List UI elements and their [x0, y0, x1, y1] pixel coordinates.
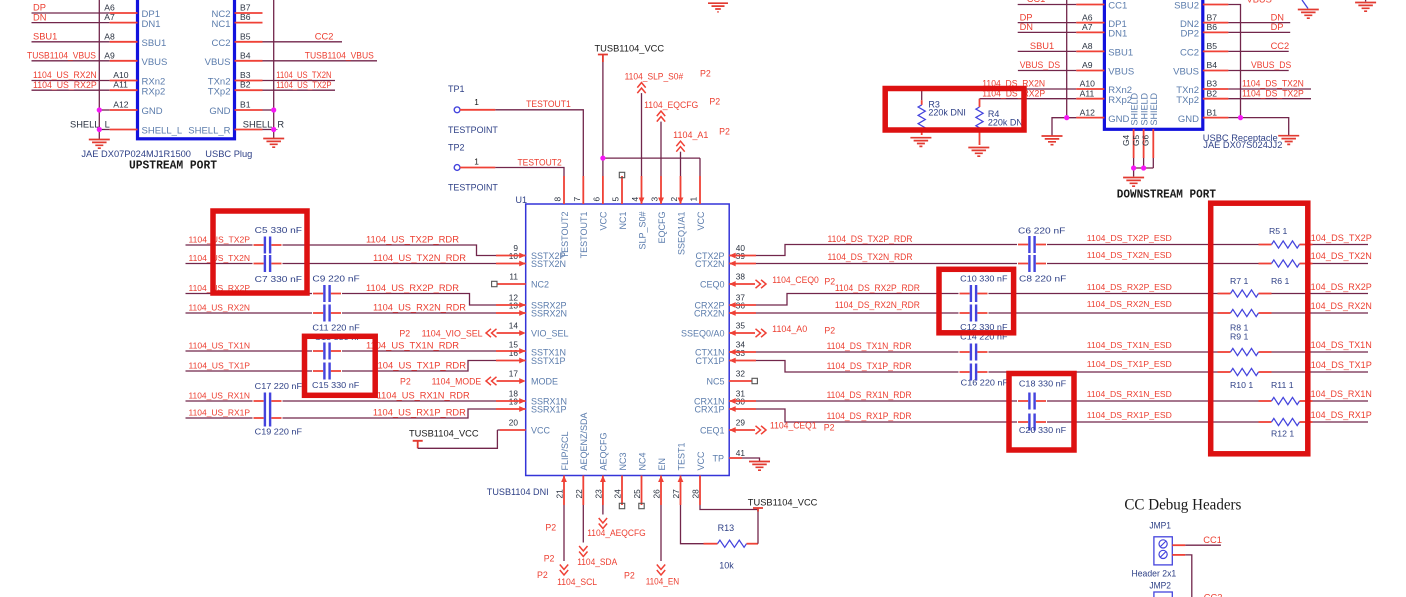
svg-text:1104_DS_RX2P_RDR: 1104_DS_RX2P_RDR	[835, 283, 920, 293]
upstream SHELL_L net label	[70, 119, 110, 129]
wire net 1104_US_RX2P with capacitor C9	[186, 283, 526, 308]
svg-text:EQCFG: EQCFG	[657, 212, 667, 244]
svg-text:1104_DS_RX2N: 1104_DS_RX2N	[1306, 301, 1372, 311]
svg-text:SSRX1P: SSRX1P	[531, 404, 567, 414]
svg-text:G4: G4	[1121, 135, 1131, 146]
svg-text:C6 220 nF: C6 220 nF	[1018, 226, 1065, 236]
upstream pin SHELL_R (SHELL_R) wire	[188, 126, 273, 137]
svg-text:SBU2: SBU2	[1174, 1, 1199, 12]
svg-text:1104_DS_TX1N_ESD: 1104_DS_TX1N_ESD	[1087, 340, 1172, 350]
svg-text:1104_US_TX1N: 1104_US_TX1N	[189, 341, 251, 351]
svg-text:SBU1: SBU1	[33, 32, 57, 42]
downstream left bus wire	[1066, 0, 1068, 118]
svg-text:C11 220 nF: C11 220 nF	[312, 323, 359, 333]
svg-text:G5: G5	[1131, 135, 1141, 146]
svg-text:CTX2N: CTX2N	[695, 259, 725, 269]
svg-text:CC Debug Headers: CC Debug Headers	[1124, 497, 1241, 514]
downstream pin B4 (VBUS) wire	[1173, 60, 1291, 78]
IC pin 23 (AEQCFG) bottom stub	[593, 432, 608, 505]
IC pin 29 (CEQ1) right name	[700, 418, 745, 436]
svg-text:1104_US_RX1N: 1104_US_RX1N	[189, 391, 251, 401]
svg-text:A9: A9	[104, 50, 115, 60]
svg-text:21: 21	[555, 489, 565, 499]
shield pin stubs	[1121, 92, 1159, 158]
svg-text:1104_DS_TX2N_ESD: 1104_DS_TX2N_ESD	[1087, 250, 1172, 260]
svg-text:3: 3	[650, 197, 660, 202]
svg-text:1104_DS_TX1P_RDR: 1104_DS_TX1P_RDR	[827, 361, 912, 371]
svg-text:SSTX2N: SSTX2N	[531, 259, 566, 269]
svg-text:P2: P2	[399, 328, 410, 338]
svg-text:R13: R13	[718, 523, 735, 533]
svg-text:JAE DX07S024JJ2: JAE DX07S024JJ2	[1203, 140, 1282, 150]
IC pin 11 (NC2) left name	[509, 272, 549, 290]
svg-text:17: 17	[509, 369, 519, 379]
svg-text:UPSTREAM PORT: UPSTREAM PORT	[129, 159, 217, 173]
svg-text:TUSB1104 DNI: TUSB1104 DNI	[487, 487, 549, 497]
upstream pin A10 (RXn2) wire	[32, 70, 166, 88]
upstream pin A7 (DN1) wire	[32, 12, 161, 30]
ground at R4	[968, 148, 989, 157]
offpage 1104_SDA from pin 22	[544, 505, 618, 567]
IC pin 6 (VCC) top stub	[592, 176, 609, 231]
svg-text:7: 7	[572, 197, 582, 202]
clipped net label top CC1 area	[1027, 0, 1046, 4]
svg-text:VBUS: VBUS	[1173, 67, 1199, 78]
junction B1	[271, 107, 276, 112]
upstream connector part labels	[81, 149, 252, 159]
svg-text:TXp2: TXp2	[208, 86, 231, 97]
testpoint TP2	[448, 142, 498, 192]
wire net 1104_US_RX1N with capacitor C17	[186, 391, 526, 410]
ground top right 2	[1355, 0, 1376, 11]
svg-text:CC1: CC1	[1203, 535, 1222, 545]
svg-text:C20 330 nF: C20 330 nF	[1019, 425, 1066, 435]
highlight box around R5-R12	[1211, 203, 1308, 454]
svg-text:NC1: NC1	[618, 212, 628, 230]
svg-text:DOWNSTREAM PORT: DOWNSTREAM PORT	[1117, 188, 1216, 202]
junction SHELL_L	[97, 127, 102, 132]
IC pin 20 (VCC) left name	[509, 418, 551, 436]
upstream left shield bus wire	[98, 0, 100, 139]
clipped net label top right	[1247, 0, 1272, 5]
wire net 1104_DS_TX1P chain with capacitor C16 and resistor R10	[729, 358, 1372, 381]
IC pin 37 (CRX2P) right name	[694, 293, 745, 311]
svg-text:VBUS: VBUS	[1247, 0, 1272, 5]
downstream USB-C receptacle connector box	[1104, 0, 1202, 129]
svg-text:B7: B7	[240, 3, 251, 13]
capacitor C16 label	[961, 378, 1008, 388]
capacitor C7 label	[255, 274, 302, 284]
IC pin 10 (SSTX2N) left name	[509, 251, 566, 269]
svg-text:P2: P2	[624, 571, 635, 581]
svg-text:C18 330 nF: C18 330 nF	[1019, 378, 1066, 388]
offpage 1104_SCL from pin 21	[537, 505, 597, 587]
IC pin 32 (NC5) right name	[706, 369, 745, 387]
svg-text:P2: P2	[824, 326, 835, 336]
svg-text:B2: B2	[240, 80, 251, 90]
IC pin 28 (VCC) bottom stub	[691, 451, 706, 505]
svg-text:FLIP/SCL: FLIP/SCL	[560, 431, 570, 470]
downstream pin B2 (TXp2) wire	[1176, 88, 1311, 106]
IC pin 14 (VIO_SEL) left name	[509, 321, 569, 339]
svg-text:1104_DS_RX1P_RDR: 1104_DS_RX1P_RDR	[827, 411, 912, 421]
svg-text:1: 1	[474, 157, 479, 167]
svg-text:P2: P2	[719, 127, 730, 137]
svg-text:A7: A7	[104, 12, 115, 22]
IC pin 36 (CRX2N) right name	[694, 301, 745, 319]
IC pin 24 (NC3) bottom stub	[613, 452, 628, 505]
svg-text:1104_US_TX2P_RDR: 1104_US_TX2P_RDR	[366, 235, 459, 245]
downstream pin A6 (DP1) wire	[1018, 12, 1127, 30]
svg-text:CEQ0: CEQ0	[700, 279, 725, 289]
svg-text:C16 220 nF: C16 220 nF	[961, 378, 1008, 388]
junction downstream B1	[1238, 115, 1243, 120]
capacitor C8 label	[1019, 274, 1066, 284]
capacitor C13 label	[315, 332, 362, 342]
svg-text:1104_US_RX1P: 1104_US_RX1P	[189, 408, 251, 418]
IC pin 1 (VCC) top stub	[689, 176, 706, 231]
svg-text:1104_DS_TX2N: 1104_DS_TX2N	[1242, 79, 1304, 89]
svg-text:32: 32	[736, 369, 746, 379]
svg-text:C5 330 nF: C5 330 nF	[255, 225, 302, 235]
svg-text:GND: GND	[1178, 114, 1199, 125]
svg-text:CC2: CC2	[1271, 41, 1290, 51]
svg-text:B4: B4	[1207, 60, 1218, 70]
svg-text:R6 1: R6 1	[1271, 276, 1290, 286]
upstream USB-C plug connector J? box	[138, 0, 235, 139]
resistor R12 label	[1271, 429, 1294, 439]
svg-text:P2: P2	[400, 376, 411, 386]
svg-text:AEQCFG: AEQCFG	[599, 432, 609, 470]
svg-text:1104_DS_TX1P: 1104_DS_TX1P	[1306, 360, 1372, 370]
svg-text:1104_US_RX2N: 1104_US_RX2N	[189, 303, 251, 313]
junction shield 2	[1141, 165, 1146, 170]
svg-text:B3: B3	[1207, 79, 1218, 89]
svg-text:1: 1	[474, 97, 479, 107]
svg-text:1104_VIO_SEL: 1104_VIO_SEL	[422, 328, 483, 338]
svg-text:TESTOUT1: TESTOUT1	[579, 212, 589, 259]
ground upstream left	[89, 140, 110, 149]
svg-text:20: 20	[509, 418, 519, 428]
svg-text:1104_US_TX2N: 1104_US_TX2N	[276, 70, 331, 80]
upstream right shield bus wire	[273, 0, 275, 138]
downstream pin B1 (GND) wire	[1178, 107, 1241, 125]
svg-text:1104_EQCFG: 1104_EQCFG	[644, 100, 698, 110]
IC pin 40 (CTX2P) right name	[695, 243, 745, 261]
svg-text:23: 23	[593, 489, 603, 499]
wire net 1104_US_TX1P with capacitor C15	[186, 358, 526, 380]
svg-text:CEQ1: CEQ1	[700, 425, 725, 435]
svg-text:B1: B1	[240, 100, 251, 110]
svg-text:5: 5	[611, 197, 621, 202]
svg-text:R9 1: R9 1	[1230, 332, 1249, 342]
svg-text:11: 11	[509, 272, 518, 282]
downstream pin A9 (VBUS) wire	[1018, 60, 1134, 78]
svg-text:CC2: CC2	[1180, 48, 1199, 59]
shield wires to ground	[1134, 158, 1154, 177]
wire net 1104_US_TX1N with capacitor C13	[186, 341, 526, 360]
svg-text:1104_SDA: 1104_SDA	[577, 557, 617, 567]
IC pin 5 no-connect square	[619, 172, 624, 177]
wire TESTOUT2	[495, 157, 564, 176]
capacitor C11 label	[312, 323, 359, 333]
downstream pin A11 (RXp2) wire	[980, 88, 1133, 106]
svg-text:G6: G6	[1141, 135, 1151, 146]
downstream pin A8 (SBU1) wire	[1018, 41, 1133, 59]
svg-text:B6: B6	[240, 12, 251, 22]
svg-text:1104_US_RX2N_RDR: 1104_US_RX2N_RDR	[373, 303, 466, 313]
svg-text:SSTX1P: SSTX1P	[531, 356, 566, 366]
IC pin 12 (SSRX2P) left name	[509, 293, 567, 311]
ground shield	[1123, 178, 1144, 187]
capacitor C19 label	[255, 427, 302, 437]
svg-text:NC4: NC4	[637, 452, 647, 470]
svg-text:220k DNI: 220k DNI	[928, 108, 966, 118]
svg-text:16: 16	[509, 348, 519, 358]
downstream pin A12 (GND) wire	[1052, 107, 1130, 125]
upstream pin A8 (SBU1) wire	[32, 31, 167, 49]
upstream pin A11 (RXp2) wire	[32, 80, 166, 98]
IC pin 21 (FLIP/SCL) bottom stub	[555, 431, 570, 505]
svg-text:1104_US_TX1P: 1104_US_TX1P	[189, 361, 251, 371]
svg-text:R12 1: R12 1	[1271, 429, 1294, 439]
svg-text:22: 22	[574, 489, 584, 499]
svg-text:R10 1: R10 1	[1230, 380, 1253, 390]
downstream pin B5 (CC2) wire	[1180, 41, 1289, 59]
svg-text:RXp2: RXp2	[142, 86, 166, 97]
svg-text:A8: A8	[104, 31, 115, 41]
svg-text:1104_MODE: 1104_MODE	[432, 376, 482, 386]
svg-text:U1: U1	[516, 195, 528, 205]
power symbol TUSB1104_VCC top	[595, 44, 665, 63]
IC pin 25 no-connect square	[639, 503, 644, 508]
svg-text:A11: A11	[113, 80, 128, 90]
svg-text:1104_DS_TX2N: 1104_DS_TX2N	[1306, 251, 1372, 261]
svg-text:1104_US_TX2P: 1104_US_TX2P	[276, 80, 331, 90]
offpage 1104_AEQCFG from pin 23	[545, 505, 645, 538]
svg-text:220k DNI: 220k DNI	[988, 118, 1026, 128]
wire net 1104_DS_TX1N chain with capacitor C14 and resistor R9	[729, 340, 1372, 361]
svg-text:NC3: NC3	[618, 452, 628, 470]
IC pin 25 (NC4) bottom stub	[632, 452, 647, 505]
svg-text:B1: B1	[1207, 107, 1218, 117]
svg-text:DN: DN	[33, 12, 46, 22]
svg-text:B3: B3	[240, 70, 251, 80]
UPSTREAM PORT title	[129, 159, 217, 173]
svg-text:GND: GND	[209, 106, 230, 117]
svg-text:SHIELD: SHIELD	[1149, 92, 1159, 125]
downstream pin B3 (TXn2) wire	[1176, 79, 1311, 97]
svg-text:GND: GND	[1108, 114, 1129, 125]
svg-text:CRX2N: CRX2N	[694, 308, 725, 318]
svg-text:SSEQ0/A0: SSEQ0/A0	[681, 328, 725, 338]
svg-text:VBUS: VBUS	[1108, 67, 1134, 78]
svg-text:1104_AEQCFG: 1104_AEQCFG	[587, 528, 646, 538]
svg-text:29: 29	[736, 418, 746, 428]
svg-text:A12: A12	[113, 100, 129, 110]
upstream pin B4 (VBUS) wire	[205, 50, 377, 68]
wire net 1104_DS_TX2P chain with capacitor C6 and resistor R5	[729, 233, 1372, 258]
svg-text:SSRX2N: SSRX2N	[531, 308, 567, 318]
resistor R10 R11 labels	[1230, 380, 1294, 390]
capacitor C12 label	[960, 322, 1007, 332]
wire net 1104_DS_RX1N chain with capacitor C18 and resistor R11	[729, 389, 1372, 410]
IC pin 38 (CEQ0) right name	[700, 272, 745, 290]
ground upstream right	[263, 139, 284, 148]
highlight box around C10 C12	[939, 269, 1014, 333]
offpage 1104_SLP_S0# to pin 4	[625, 69, 711, 177]
svg-text:33: 33	[736, 348, 746, 358]
junction SHELL_R	[271, 127, 276, 132]
svg-text:R11 1: R11 1	[1271, 380, 1294, 390]
testpoint TP1	[448, 84, 498, 135]
IC pin 41 TP wire to ground	[729, 458, 759, 461]
IC pin 24 no-connect square	[619, 503, 624, 508]
svg-text:A8: A8	[1082, 41, 1093, 51]
resistor R5 label	[1269, 226, 1288, 236]
svg-text:1104_DS_TX1P_ESD: 1104_DS_TX1P_ESD	[1087, 359, 1172, 369]
svg-text:C7 330 nF: C7 330 nF	[255, 274, 302, 284]
svg-text:CC2: CC2	[1204, 593, 1223, 597]
svg-text:SHIELD: SHIELD	[1129, 92, 1139, 125]
IC pin 35 (SSEQ0/A0) right name	[681, 321, 745, 339]
IC pin 39 (CTX2N) right name	[695, 251, 745, 269]
svg-text:GND: GND	[142, 106, 163, 117]
IC pin 2 (SSEQ1/A1) top stub	[669, 176, 686, 255]
wire TUSB1104_VCC to pin6/pin1	[603, 62, 700, 176]
svg-text:A7: A7	[1082, 22, 1093, 32]
ground downstream B1	[1278, 136, 1299, 145]
svg-text:1104_US_TX2N: 1104_US_TX2N	[189, 253, 251, 263]
upstream pin B7 (NC2) wire	[211, 3, 262, 21]
svg-text:10k: 10k	[719, 561, 734, 571]
svg-text:A10: A10	[1080, 79, 1096, 89]
svg-text:TUSB1104_VBUS: TUSB1104_VBUS	[27, 51, 96, 61]
svg-text:14: 14	[509, 321, 519, 331]
svg-text:VCC: VCC	[696, 211, 706, 231]
junction A12	[97, 107, 102, 112]
svg-text:CC2: CC2	[211, 38, 230, 49]
svg-text:R5 1: R5 1	[1269, 226, 1288, 236]
svg-text:TESTOUT1: TESTOUT1	[526, 99, 571, 109]
IC pin 15 (SSTX1N) left name	[509, 340, 566, 358]
downstream pin B6 (DP2) wire	[1181, 22, 1291, 39]
svg-text:SBU1: SBU1	[1030, 41, 1054, 51]
svg-text:SSEQ1/A1: SSEQ1/A1	[676, 212, 686, 256]
power symbol TUSB1104_VCC at pin 28	[748, 498, 818, 512]
svg-text:SBU1: SBU1	[142, 38, 167, 49]
svg-text:EN: EN	[657, 458, 667, 471]
svg-text:DP2: DP2	[1181, 29, 1199, 40]
svg-text:C15 330 nF: C15 330 nF	[312, 380, 359, 390]
CC2 label partial	[1204, 593, 1223, 597]
svg-text:P2: P2	[824, 423, 835, 433]
resistor R3 220k DNI	[918, 89, 966, 135]
IC pin 9 (SSTX2P) left name	[513, 243, 565, 261]
svg-text:B5: B5	[240, 31, 251, 41]
downstream pin B7 (DN2) wire	[1180, 12, 1290, 30]
capacitor C9 label	[312, 274, 359, 284]
svg-text:28: 28	[691, 489, 701, 499]
wire TESTOUT1	[495, 99, 583, 176]
capacitor C6 label	[1018, 226, 1065, 236]
wire VCC to pin 20	[418, 430, 526, 448]
junction VCC pin6	[600, 156, 605, 161]
svg-text:CC2: CC2	[315, 32, 334, 42]
svg-text:TUSB1104_VCC: TUSB1104_VCC	[595, 44, 665, 54]
svg-text:C9 220 nF: C9 220 nF	[312, 274, 359, 284]
svg-text:VCC: VCC	[531, 425, 551, 435]
svg-text:TP: TP	[713, 454, 725, 464]
capacitor C18 label	[1019, 378, 1066, 388]
offpage 1104_A0 at pin 35	[729, 324, 835, 337]
svg-text:TEST1: TEST1	[676, 442, 686, 470]
svg-text:25: 25	[632, 489, 642, 499]
svg-text:P2: P2	[700, 69, 711, 79]
svg-text:TESTOUT2: TESTOUT2	[518, 157, 562, 167]
svg-text:38: 38	[736, 272, 746, 282]
resistor R13	[718, 523, 747, 571]
resistor R8 R9 labels	[1230, 323, 1249, 342]
svg-text:1104_SCL: 1104_SCL	[557, 577, 597, 587]
resistor R4 220k DNI	[976, 99, 1026, 145]
downstream pin A10 (RXn2) wire	[922, 79, 1132, 97]
svg-text:TUSB1104_VCC: TUSB1104_VCC	[748, 498, 818, 508]
wire net 1104_DS_RX1P chain with capacitor C20 and resistor R12	[729, 406, 1372, 430]
svg-text:JMP2: JMP2	[1149, 581, 1171, 591]
svg-text:35: 35	[736, 321, 746, 331]
offpage 1104_A1 to pin 2	[673, 127, 730, 177]
IC pin 33 (CTX1P) right name	[695, 348, 745, 366]
svg-text:1104_US_RX2N: 1104_US_RX2N	[33, 70, 97, 80]
svg-text:1104_DS_TX2P_ESD: 1104_DS_TX2P_ESD	[1087, 233, 1172, 243]
svg-text:DN: DN	[1271, 12, 1284, 22]
svg-text:A12: A12	[1080, 107, 1096, 117]
svg-text:DN: DN	[1020, 22, 1033, 32]
svg-text:CTX1P: CTX1P	[695, 356, 724, 366]
svg-text:1104_DS_TX2P: 1104_DS_TX2P	[1242, 88, 1304, 98]
svg-text:NC5: NC5	[706, 376, 724, 386]
svg-text:R7 1: R7 1	[1230, 276, 1249, 286]
svg-text:1104_DS_RX1P: 1104_DS_RX1P	[1306, 410, 1372, 420]
svg-text:DP: DP	[1271, 22, 1284, 32]
svg-text:C19 220 nF: C19 220 nF	[255, 427, 302, 437]
svg-text:NC1: NC1	[211, 19, 230, 30]
IC pin 13 (SSRX2N) left name	[509, 301, 567, 319]
svg-text:A9: A9	[1082, 60, 1093, 70]
svg-text:2: 2	[669, 197, 679, 202]
IC pin 7 (TESTOUT1) top stub	[572, 176, 589, 258]
downstream connector part labels	[1203, 133, 1283, 150]
IC pin 3 (EQCFG) top stub	[650, 176, 667, 244]
CC Debug Headers title	[1124, 497, 1241, 514]
IC pin 16 (SSTX1P) left name	[509, 348, 566, 366]
IC pin 11 NC2 no-connect stub	[492, 281, 526, 286]
svg-text:CRX1P: CRX1P	[694, 404, 724, 414]
svg-text:1104_DS_RX1N_ESD: 1104_DS_RX1N_ESD	[1087, 389, 1172, 399]
op-amp style IC U1 TUSB1104 box	[516, 195, 730, 476]
svg-text:B2: B2	[1207, 88, 1218, 98]
junction downstream A12	[1064, 115, 1069, 120]
IC pin 4 (SLP_S0#) top stub	[630, 176, 647, 250]
svg-text:B5: B5	[1207, 41, 1218, 51]
svg-text:1104_SLP_S0#: 1104_SLP_S0#	[625, 72, 684, 82]
wire net 1104_DS_TX2N chain with capacitor C8 and resistor R6	[729, 250, 1372, 272]
svg-text:1104_US_TX2P: 1104_US_TX2P	[189, 235, 251, 245]
svg-text:1104_DS_TX2P: 1104_DS_TX2P	[1306, 233, 1372, 243]
svg-text:SHIELD: SHIELD	[1139, 92, 1149, 125]
svg-text:1104_DS_RX1N: 1104_DS_RX1N	[1306, 389, 1372, 399]
